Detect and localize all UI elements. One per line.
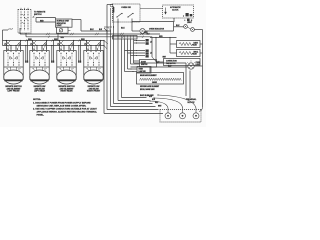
svg-text:RIGHT REAR: RIGHT REAR <box>60 90 73 93</box>
svg-text:SWITCH: SWITCH <box>141 64 148 66</box>
svg-text:OVEN: OVEN <box>139 69 143 71</box>
svg-text:LEFT FRONT: LEFT FRONT <box>7 91 20 93</box>
svg-text:L1: L1 <box>150 42 152 44</box>
svg-text:1. DISCONNECT POWER FROM POWER: 1. DISCONNECT POWER FROM POWER SUPPLY BE… <box>33 102 91 104</box>
svg-text:TERMINAL: TERMINAL <box>186 98 197 101</box>
svg-text:LEFT REAR: LEFT REAR <box>34 90 45 93</box>
svg-text:BLOCK: BLOCK <box>188 102 196 104</box>
svg-text:WHT: WHT <box>158 105 161 107</box>
svg-text:2. USE ONLY COPPER CONDUCTORS: 2. USE ONLY COPPER CONDUCTORS SUITABLE F… <box>33 107 98 110</box>
svg-text:L2: L2 <box>150 52 152 54</box>
svg-text:PANEL.: PANEL. <box>37 113 45 116</box>
svg-text:NOTES:: NOTES: <box>33 99 41 101</box>
svg-text:BROIL: BROIL <box>194 51 199 53</box>
svg-text:RIGHT FRONT: RIGHT FRONT <box>87 91 101 93</box>
svg-text:LIGHT: LIGHT <box>187 22 192 24</box>
svg-text:SERVICING UNIT. REPLACE WIRE C: SERVICING UNIT. REPLACE WIRE COVER AFTER… <box>37 104 87 107</box>
svg-text:SWITCH: SWITCH <box>34 14 42 16</box>
svg-text:OVEN INDICATOR: OVEN INDICATOR <box>149 27 165 30</box>
svg-text:CONVECTION: CONVECTION <box>166 61 177 63</box>
svg-text:LIGHT: LIGHT <box>196 64 201 66</box>
svg-text:CLOCK: CLOCK <box>172 10 179 12</box>
svg-text:OVEN SW: OVEN SW <box>121 7 131 9</box>
svg-text:APPLIANCE WIRING. ALWAYS RETUR: APPLIANCE WIRING. ALWAYS RETURN GROUND T… <box>37 110 98 113</box>
svg-text:WHT: WHT <box>163 57 166 59</box>
